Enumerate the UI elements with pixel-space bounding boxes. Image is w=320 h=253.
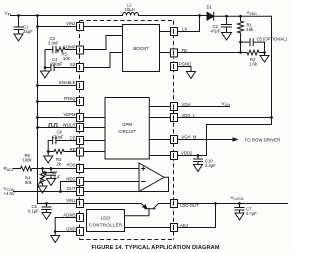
block GPM circuit	[105, 98, 149, 160]
wire ENABLE row	[38, 85, 77, 87]
wire Q1 base to LDO controller	[125, 209, 150, 216]
ground below R2 node	[260, 53, 269, 63]
svg-text:ENABLE: ENABLE	[59, 80, 76, 85]
wire POS row	[32, 168, 139, 170]
capacitor C9	[235, 204, 244, 214]
svg-text:220pF: 220pF	[51, 61, 63, 66]
svg-text:AGND: AGND	[63, 212, 75, 217]
resistor R5	[56, 47, 65, 52]
svg-text:+4.5V: +4.5V	[4, 191, 15, 196]
svg-text:LDO: LDO	[101, 216, 111, 221]
svg-text:TO ROW DRIVER: TO ROW DRIVER	[245, 138, 281, 143]
diode D1	[207, 12, 214, 20]
svg-text:80k: 80k	[25, 180, 33, 185]
inductor L1	[123, 13, 139, 16]
resistor R4 variable	[40, 169, 45, 187]
wire GND outer	[55, 231, 76, 233]
wire FB outer	[177, 52, 240, 54]
svg-text:FREQ: FREQ	[64, 96, 76, 101]
capacitor C2	[222, 16, 232, 32]
ground below COMP/SS	[41, 68, 50, 79]
svg-text:NEG: NEG	[66, 176, 75, 181]
wire VCOM to OUT pin	[14, 191, 77, 193]
wire RADJ lead	[13, 168, 21, 170]
opamp minus sign	[142, 181, 145, 183]
wire node A to FB node	[240, 42, 242, 52]
block BOOST	[123, 25, 160, 72]
node junction bus tap	[36, 14, 39, 17]
wire COMP row outer	[65, 49, 77, 51]
capacitor C8	[48, 137, 56, 144]
capacitor C10	[194, 156, 203, 165]
svg-text:0.1µF: 0.1µF	[28, 209, 39, 214]
resistor R2	[241, 50, 265, 55]
svg-text:COMP: COMP	[63, 45, 76, 50]
node junction R1 tap	[239, 15, 242, 18]
svg-text:LDO OUT: LDO OUT	[180, 203, 199, 208]
svg-text:VDD_1: VDD_1	[182, 113, 196, 118]
svg-text:W1/LR: W1/LR	[63, 123, 76, 128]
wire VDD1 inner	[149, 117, 170, 119]
node junction ADJ/VLOGIC	[214, 202, 217, 205]
svg-text:POS: POS	[67, 163, 76, 168]
wire W1LR row	[38, 127, 106, 129]
node junction R4 tap	[41, 167, 44, 170]
pin inner ticks	[80, 24, 174, 234]
svg-text:GPM: GPM	[122, 122, 132, 127]
resistor R6	[21, 166, 33, 171]
arrow across R4	[39, 172, 47, 185]
node junction C1 tap	[17, 14, 20, 17]
wire VGHM inner	[149, 139, 170, 141]
capacitor C5	[241, 39, 265, 46]
svg-text:D1: D1	[207, 5, 213, 10]
ground below GND	[51, 232, 60, 243]
svg-text:10µH: 10µH	[125, 7, 135, 12]
wire FREQ row	[38, 101, 77, 103]
wire SS row outer	[54, 67, 77, 69]
svg-text:VDD2: VDD2	[181, 150, 193, 155]
wire FB inner	[160, 52, 171, 54]
node junction VDPM row	[36, 116, 39, 119]
ground below R4	[38, 186, 47, 193]
wire LX outer	[177, 16, 199, 32]
node junction C7 tap	[50, 167, 53, 170]
svg-text:CE: CE	[70, 135, 76, 140]
wire VIN1 row	[38, 203, 77, 205]
svg-text:VIN2: VIN2	[66, 21, 76, 26]
svg-text:470pF: 470pF	[52, 135, 64, 140]
svg-text:BOOST: BOOST	[133, 46, 149, 51]
ground below C6	[42, 213, 51, 220]
ground below C1	[14, 34, 23, 41]
wire VDD2 outer	[177, 155, 206, 157]
pin boxes left and right	[77, 23, 178, 236]
node junction ENABLE row	[36, 84, 39, 87]
wire SS row inner	[83, 53, 122, 68]
wire VIN2 row	[38, 26, 123, 28]
capacitor C4	[45, 64, 54, 71]
svg-text:CONTROLLER: CONTROLLER	[89, 223, 122, 228]
ground below C9	[235, 213, 244, 220]
wire CE row inner	[83, 140, 105, 142]
wire opamp output loop to OUT	[83, 177, 168, 191]
node junction C2 tap	[225, 15, 228, 18]
wire AVDD drop right vertical	[207, 16, 272, 155]
svg-text:RE: RE	[70, 147, 76, 152]
ground below CE/RE	[44, 152, 53, 164]
wire NEG row inner	[83, 181, 139, 183]
svg-text:OUT: OUT	[67, 186, 76, 191]
node junction W1LR row	[36, 126, 39, 129]
node junction FREQ row	[36, 100, 39, 103]
svg-text:ADJ: ADJ	[180, 223, 188, 228]
capacitor C6	[42, 204, 51, 213]
svg-text:2.2µF: 2.2µF	[205, 163, 216, 168]
svg-text:19k: 19k	[247, 27, 255, 32]
svg-text:GND: GND	[66, 226, 75, 231]
wire NEG feedback outer	[61, 182, 77, 192]
wire RE row outer	[64, 151, 77, 153]
svg-text:C5 (OPTIONAL): C5 (OPTIONAL)	[257, 36, 288, 41]
wire CE node down to RE row	[47, 141, 49, 152]
resistor R3	[48, 149, 64, 154]
wire VGH inner	[149, 106, 170, 108]
svg-text:3.3nF: 3.3nF	[48, 41, 59, 46]
svg-text:SS: SS	[70, 62, 76, 67]
wire VIN rail	[11, 15, 208, 17]
svg-text:LX: LX	[182, 27, 187, 32]
wire VIN1 emitter line	[83, 203, 141, 205]
svg-text:FIGURE 14. TYPICAL APPLICATION: FIGURE 14. TYPICAL APPLICATION DIAGRAM	[92, 245, 220, 251]
wire RE row inner	[83, 151, 105, 153]
waveform glyph W1LR	[48, 124, 59, 127]
wire VGH outer to VON	[177, 106, 229, 108]
node FB junction	[239, 51, 242, 54]
wire VDD2 inner	[149, 155, 170, 157]
svg-text:1.0k: 1.0k	[249, 62, 258, 67]
svg-text:FB: FB	[182, 48, 188, 53]
svg-text:100k: 100k	[23, 158, 33, 163]
wire CE row outer	[56, 140, 77, 142]
wire LDO OUT row VLOGIC	[177, 203, 287, 205]
wire PGND outer	[177, 67, 191, 72]
opamp plus sign	[142, 167, 145, 170]
svg-text:22µF: 22µF	[23, 29, 33, 34]
ground below C7	[47, 179, 56, 186]
wire COMP node down to SS node	[44, 50, 46, 68]
wire COMP row inner	[83, 36, 122, 50]
svg-text:1µF: 1µF	[53, 174, 61, 179]
node junction VIN2 row	[36, 25, 39, 28]
wire LX inner	[160, 31, 171, 33]
svg-text:CIRCUIT: CIRCUIT	[118, 129, 136, 134]
svg-text:47µF: 47µF	[211, 29, 221, 34]
node junction CE/RE ground	[47, 150, 50, 153]
wire ADJ inner	[125, 227, 171, 229]
ground below PGND	[187, 72, 196, 79]
wire VDPM row	[38, 117, 106, 119]
capacitor C3	[45, 46, 56, 53]
node junction VDD1 row	[270, 116, 273, 119]
ground below C10	[194, 165, 203, 172]
resistor R1	[238, 16, 244, 42]
op-amp U1	[139, 163, 164, 192]
ground below C2	[222, 33, 232, 41]
node junction COMP/SS ground	[44, 66, 47, 69]
transistor Q1 PNP pass	[141, 204, 171, 209]
svg-text:PGND: PGND	[179, 61, 191, 66]
node junction C10 tap	[197, 154, 200, 157]
node A junction R1/C5	[239, 41, 242, 44]
wire ADJ outer feedback	[177, 204, 215, 228]
emitter arrowhead Q1	[143, 205, 147, 208]
node junction LX tap	[198, 14, 201, 17]
svg-text:4.7µF: 4.7µF	[246, 211, 257, 216]
svg-text:10k: 10k	[63, 56, 71, 61]
node junction NEG/OUT	[59, 190, 62, 193]
wire VDD1 outer	[177, 117, 271, 119]
wire VGHM outer to row driver arrow	[177, 139, 237, 141]
node junction R2/C5 right	[263, 51, 266, 54]
wire C5 right corner down	[264, 42, 266, 52]
wire left VIN bus	[37, 16, 39, 204]
capacitor C1	[14, 16, 23, 35]
wire diode cathode to AVDD corner	[214, 15, 272, 17]
svg-text:VIN1: VIN1	[66, 198, 76, 203]
node junction C6 tap	[45, 202, 48, 205]
svg-text:+: +	[44, 169, 47, 174]
svg-text:VGH_M: VGH_M	[182, 134, 197, 139]
node junction AGND/GND	[54, 230, 57, 233]
svg-text:VGH: VGH	[182, 102, 191, 107]
IC package dashed boundary	[80, 21, 174, 240]
block LDO controller	[87, 210, 125, 232]
wire AGND outer	[55, 218, 76, 232]
svg-text:VDPM: VDPM	[63, 112, 76, 117]
node junction C9 tap	[238, 202, 241, 205]
capacitor C7	[47, 169, 56, 179]
